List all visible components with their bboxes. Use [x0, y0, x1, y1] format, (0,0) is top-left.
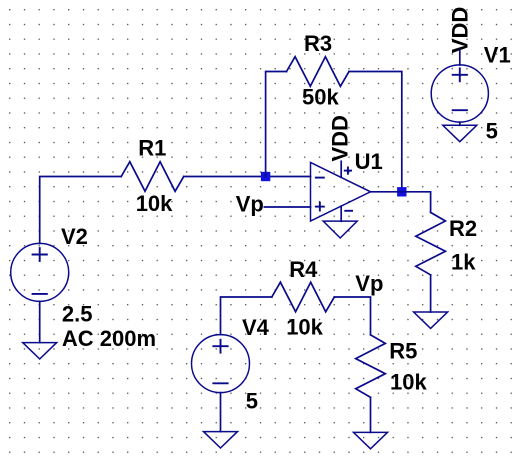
- resistor R3: [287, 57, 350, 87]
- svg-text:5: 5: [486, 119, 498, 144]
- wire: V4 bottom to ground: [220, 393, 222, 432]
- svg-text:2.5: 2.5: [62, 302, 93, 327]
- wire: feedback node up and right to R3: [266, 72, 287, 177]
- svg-text:VDD: VDD: [448, 7, 473, 53]
- voltage source V2: [11, 243, 69, 301]
- svg-text:5: 5: [246, 389, 258, 414]
- svg-text:V1: V1: [484, 43, 511, 68]
- svg-text:V2: V2: [61, 224, 88, 249]
- svg-text:10k: 10k: [390, 370, 427, 395]
- ground (below V2): [23, 343, 57, 359]
- wire: R1 right to U1 inverting input: [184, 176, 311, 178]
- svg-text:VDD: VDD: [328, 115, 353, 161]
- resistor R4: [272, 282, 335, 312]
- wire: Vp label to U1 non-inverting input: [264, 206, 310, 208]
- svg-text:50k: 50k: [302, 85, 339, 110]
- voltage source V1: [431, 65, 488, 122]
- svg-text:Vp: Vp: [355, 271, 383, 296]
- wire: V2 top to R1 left: [40, 177, 122, 244]
- op-amp U1: [311, 161, 371, 221]
- wire: V2 bottom to ground: [39, 301, 41, 342]
- svg-text:1k: 1k: [451, 250, 476, 275]
- ground (below V4): [204, 432, 238, 448]
- svg-text:R1: R1: [138, 136, 166, 161]
- wire: VDD label to V1 top: [459, 50, 461, 65]
- svg-text:Vp: Vp: [236, 192, 264, 217]
- wire: R4 right to R5 top (node Vp): [334, 297, 370, 335]
- wire: U1 output to R2 top: [371, 192, 431, 213]
- resistor R2: [416, 212, 446, 275]
- svg-text:10k: 10k: [136, 191, 173, 216]
- ground (below R5): [354, 432, 388, 448]
- ground (below V1): [443, 125, 477, 141]
- voltage source V4: [192, 335, 250, 393]
- node junction (U1 output): [397, 187, 406, 196]
- wire: R5 bottom to ground: [370, 397, 372, 432]
- wire: R4 left to V4 top: [221, 297, 272, 335]
- wire: R2 bottom to ground: [430, 275, 432, 312]
- ground (U1 negative supply): [323, 221, 357, 238]
- wire: R3 right down to output node: [349, 72, 402, 192]
- svg-text:U1: U1: [355, 149, 383, 174]
- svg-text:R4: R4: [289, 257, 318, 282]
- svg-text:R5: R5: [389, 338, 417, 363]
- wire: V1 bottom to ground: [459, 122, 461, 125]
- resistor R5: [356, 335, 386, 398]
- node junction (U1 inverting input / feedback): [261, 172, 270, 181]
- svg-text:V4: V4: [242, 315, 270, 340]
- svg-text:R2: R2: [449, 216, 477, 241]
- svg-text:AC 200m: AC 200m: [62, 326, 156, 351]
- svg-text:10k: 10k: [286, 315, 323, 340]
- resistor R1: [121, 162, 184, 192]
- ground (below R2): [414, 312, 448, 328]
- svg-text:R3: R3: [304, 31, 332, 56]
